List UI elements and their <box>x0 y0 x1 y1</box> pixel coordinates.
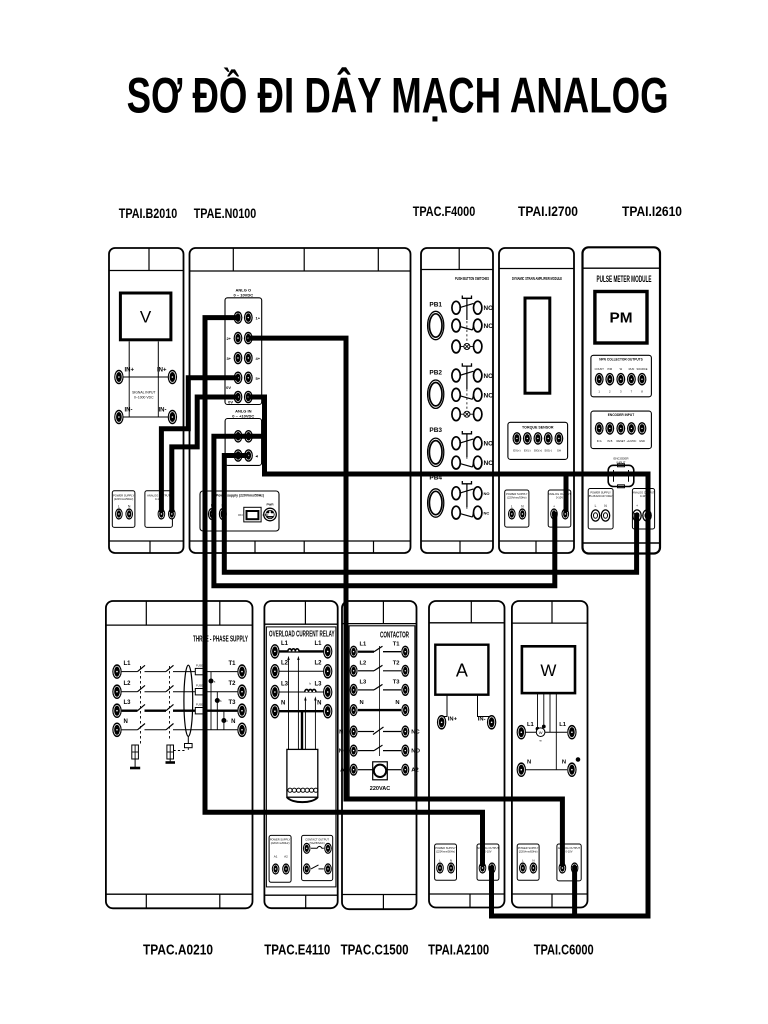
terminal analog + <box>479 862 487 873</box>
terminal N <box>447 862 455 873</box>
tap vertical 1 <box>210 672 212 730</box>
footer divider 1 <box>145 894 147 908</box>
footer band line <box>264 894 337 896</box>
terminal N <box>530 862 538 873</box>
tap dot 2 <box>215 699 219 703</box>
CT lead <box>187 736 189 743</box>
terminal L1 right <box>567 725 576 740</box>
svg-text:DYNAMIC STRAIN AMPLIFIER MODUL: DYNAMIC STRAIN AMPLIFIER MODULE <box>512 276 562 281</box>
svg-text:POWER SUPPLY: POWER SUPPLY <box>270 838 291 842</box>
svg-text:N: N <box>124 719 128 725</box>
svg-text:L: L <box>118 505 120 509</box>
header band line <box>583 267 661 269</box>
power supply box <box>269 835 291 882</box>
wire W5 analog-out row5R bus to I2610 and meters <box>248 397 648 916</box>
CT dashed link <box>172 750 185 752</box>
svg-text:L: L <box>595 504 597 508</box>
terminal N <box>125 508 133 519</box>
strain amplifier display window <box>525 298 550 393</box>
terminal IN- <box>487 715 496 730</box>
svg-text:A: A <box>456 661 468 681</box>
svg-text:RESET: RESET <box>616 439 625 443</box>
ammeter display A <box>435 645 488 695</box>
L1-T1 contact <box>358 651 374 653</box>
L1 heater <box>288 649 299 652</box>
footer band line <box>429 893 505 895</box>
terminal L1 left <box>270 644 279 659</box>
footer divider <box>469 894 471 907</box>
terminal N left <box>270 704 279 719</box>
svg-text:NO: NO <box>484 305 494 312</box>
PB1 contact NC <box>452 319 460 332</box>
contact output box <box>302 835 333 880</box>
svg-text:IN B: IN B <box>607 439 612 443</box>
svg-text:TPAC.C1500: TPAC.C1500 <box>341 943 409 959</box>
terminal L <box>436 862 444 873</box>
svg-text:TPAC.F4000: TPAC.F4000 <box>413 204 476 219</box>
terminal L <box>508 508 516 519</box>
header band line <box>106 624 253 626</box>
header band line <box>421 269 493 271</box>
module TPAI.C6000 frame <box>512 601 588 908</box>
terminal N left <box>517 762 526 777</box>
terminal L3 right <box>323 685 332 700</box>
svg-text:FUSE: FUSE <box>196 664 203 668</box>
svg-text:N: N <box>450 859 452 863</box>
current transformer oval <box>184 665 193 736</box>
terminal IN+ right <box>168 370 177 385</box>
svg-text:(5A/250VAC): (5A/250VAC) <box>310 841 325 845</box>
svg-text:T2: T2 <box>228 681 236 687</box>
svg-text:ANALOG OUTPUT: ANALOG OUTPUT <box>147 493 170 497</box>
wire A to IN- <box>478 695 492 718</box>
power supply box <box>517 844 539 880</box>
terminal T3 <box>237 703 246 718</box>
svg-text:N: N <box>360 700 364 706</box>
power supply box <box>505 490 529 527</box>
watt element symbol <box>536 728 545 737</box>
PB3 contact NC <box>452 456 460 469</box>
terminal L <box>115 508 123 519</box>
svg-text:SIG(-): SIG(-) <box>544 449 552 453</box>
svg-text:A2: A2 <box>411 768 418 774</box>
terminal analog out - <box>168 508 176 519</box>
header band line <box>499 268 574 270</box>
terminal L2 <box>350 665 358 677</box>
terminal N <box>219 508 227 520</box>
svg-text:N: N <box>317 701 321 707</box>
terminal L <box>208 508 216 520</box>
terminal N right <box>237 723 246 738</box>
junction dot <box>542 725 545 728</box>
svg-text:NC: NC <box>484 392 494 399</box>
svg-text:NPN COLLECTOR OUTPUTS: NPN COLLECTOR OUTPUTS <box>599 357 643 361</box>
terminal IN- left <box>114 410 123 425</box>
footer divider 2 <box>219 894 221 908</box>
header divider <box>551 601 553 623</box>
wire W2 analog-out row5 to B2010 output - <box>172 397 238 512</box>
analog output box <box>548 490 571 527</box>
stray dot <box>576 758 580 762</box>
svg-text:TPAI.B2010: TPAI.B2010 <box>119 206 178 221</box>
svg-text:L1: L1 <box>281 641 289 647</box>
terminal enc +12VDC <box>627 422 636 435</box>
terminal NC right <box>401 725 409 737</box>
module TPAI.I2610 frame <box>583 247 661 553</box>
terminal L1 right <box>323 644 332 659</box>
svg-text:+: + <box>636 504 638 508</box>
svg-text:P/M: P/M <box>607 367 612 371</box>
svg-text:CONTACT OUTPUT: CONTACT OUTPUT <box>305 838 329 842</box>
wire W7 analog-in row2 to I2610 analog output + <box>224 456 636 573</box>
sensing lead 2 <box>297 658 299 749</box>
footer divider 3 <box>373 541 375 553</box>
PB2 contact NO <box>452 369 460 382</box>
PB1 linkage <box>466 299 468 343</box>
terminal in row2 R <box>244 449 253 462</box>
svg-text:EX(-): EX(-) <box>524 449 531 453</box>
terminal IN+ left <box>114 370 123 385</box>
svg-text:1+: 1+ <box>256 316 261 321</box>
svg-text:NC: NC <box>484 510 490 515</box>
module TPAC.A0210 frame <box>106 601 253 908</box>
header divider <box>304 601 306 624</box>
svg-text:NO: NO <box>484 491 490 496</box>
footer band line <box>421 540 493 542</box>
wire W lead 1 <box>537 693 539 729</box>
N breaker blade 1 <box>138 724 146 730</box>
N row line thick <box>279 710 323 712</box>
module TPAI.B2010 frame <box>109 248 184 553</box>
terminal row5 R <box>244 391 253 404</box>
terminal L1 <box>350 646 358 658</box>
svg-text:4+: 4+ <box>256 356 261 361</box>
svg-text:POWER SUPPLY: POWER SUPPLY <box>435 846 456 850</box>
svg-text:+: + <box>553 505 555 509</box>
svg-text:N: N <box>527 760 531 766</box>
svg-text:L2: L2 <box>314 661 322 667</box>
footer divider 1 <box>254 541 256 553</box>
terminal T1 <box>237 664 246 679</box>
header band line <box>512 622 588 624</box>
svg-text:ANALOG OUTPUT: ANALOG OUTPUT <box>632 491 655 495</box>
svg-text:IN+: IN+ <box>125 368 135 374</box>
N breaker blade 2 <box>166 724 174 730</box>
svg-text:PM: PM <box>610 310 633 327</box>
wire IN- row <box>119 416 172 418</box>
breaker linkage 1 <box>140 666 142 745</box>
terminal row5 L <box>234 391 243 404</box>
svg-text:A2: A2 <box>284 855 288 859</box>
terminal L <box>591 510 599 521</box>
svg-text:SIGNAL INPUT: SIGNAL INPUT <box>132 391 155 395</box>
inner panel <box>266 627 336 887</box>
surge arrester 1 <box>132 745 139 759</box>
header divider 2 <box>303 248 305 271</box>
svg-text:N: N <box>562 760 566 766</box>
PB1 contact NO <box>452 301 460 314</box>
svg-text:0~1000 VDC: 0~1000 VDC <box>134 396 154 400</box>
terminal analog - <box>643 510 651 521</box>
L1 breaker blade 1 <box>138 665 146 671</box>
svg-text:N: N <box>395 700 399 706</box>
terminal in row1 L <box>234 430 243 443</box>
wire IN+ row <box>119 376 172 378</box>
terminal row1 L <box>234 311 243 324</box>
svg-text:TPAI.A2100: TPAI.A2100 <box>428 943 489 959</box>
svg-text:TPAC.E4110: TPAC.E4110 <box>264 943 330 959</box>
terminal analog - <box>571 862 579 873</box>
svg-text:RUN: RUN <box>629 367 635 371</box>
svg-text:PULSE METER MODULE: PULSE METER MODULE <box>597 274 652 284</box>
terminal T1 <box>401 646 409 658</box>
svg-text:◄: ◄ <box>255 454 259 459</box>
terminal A2 <box>282 863 290 874</box>
analog output box <box>477 844 499 880</box>
wire W8 branch to I2700 analog output - <box>564 474 569 512</box>
NC contact <box>358 731 374 733</box>
N row line <box>526 769 567 771</box>
footer divider <box>382 895 384 910</box>
terminal row2 L <box>234 332 243 345</box>
svg-text:FUSE: FUSE <box>196 684 203 688</box>
svg-text:SOURCE: SOURCE <box>636 367 647 371</box>
svg-text:TPAI.C6000: TPAI.C6000 <box>534 943 594 959</box>
analog out terminal block <box>225 298 262 405</box>
terminal L3 <box>112 703 121 718</box>
svg-text:(220Vrms/50Hz): (220Vrms/50Hz) <box>436 850 455 854</box>
terminal npn 8 <box>638 373 647 386</box>
wattmeter display W <box>522 646 575 693</box>
svg-text:L1: L1 <box>360 641 368 647</box>
module TPAC.F4000 frame <box>421 248 493 553</box>
footer divider 2 <box>303 541 305 553</box>
terminal T3 <box>401 684 409 696</box>
svg-text:CONTACTOR: CONTACTOR <box>380 631 409 640</box>
svg-text:N: N <box>532 859 534 863</box>
coil 220VAC <box>373 762 388 780</box>
svg-text:+12VDC: +12VDC <box>626 439 636 443</box>
terminal NO right <box>401 745 409 757</box>
terminal NO left <box>350 745 358 757</box>
NO contact <box>358 750 374 752</box>
L2 row line <box>279 670 323 672</box>
relay bottom arc <box>287 797 318 802</box>
wire A to IN+ <box>442 695 447 718</box>
svg-text:T1: T1 <box>393 641 401 647</box>
footer band line <box>499 540 574 542</box>
PB3 contact NO <box>452 437 460 450</box>
PB4 contact NC <box>452 506 460 519</box>
terminal row4 L <box>234 372 243 385</box>
svg-text:POWER SUPPLY: POWER SUPPLY <box>518 846 539 850</box>
svg-text:L1: L1 <box>124 661 132 667</box>
svg-text:W: W <box>540 661 556 680</box>
wire W lead 4 <box>555 693 557 770</box>
svg-text:IN+: IN+ <box>448 716 458 722</box>
header band line <box>429 622 505 624</box>
svg-text:COUNT: COUNT <box>595 367 605 371</box>
analog in terminal block <box>225 419 262 466</box>
header divider 2 <box>219 601 221 625</box>
svg-text:POWER SUPPLY: POWER SUPPLY <box>590 491 611 495</box>
terminal L1 left <box>517 725 526 740</box>
voltmeter display V <box>120 293 170 340</box>
svg-text:T2: T2 <box>393 661 400 667</box>
footer divider <box>459 541 461 553</box>
svg-text:T3: T3 <box>393 680 401 686</box>
svg-text:TPAI.I2610: TPAI.I2610 <box>622 204 682 219</box>
ground 1 <box>130 767 140 770</box>
terminal N right <box>567 762 576 777</box>
svg-text:PWR: PWR <box>267 503 275 507</box>
svg-text:V: V <box>140 308 152 327</box>
N drop thick <box>301 711 303 749</box>
terminal N right <box>401 704 409 716</box>
L1 row line <box>526 731 567 733</box>
header band line <box>342 623 417 625</box>
svg-text:(220Vrms/50Hz): (220Vrms/50Hz) <box>271 841 290 845</box>
svg-text:0-10V: 0-10V <box>556 496 563 500</box>
PB4 linkage <box>466 485 468 511</box>
inner panel <box>349 626 415 798</box>
header divider <box>470 601 472 623</box>
svg-text:L3: L3 <box>360 680 368 686</box>
sensing lead 1 <box>288 658 290 749</box>
signal input box <box>129 377 158 417</box>
contact NO pair <box>303 863 311 874</box>
footer band line <box>583 542 661 544</box>
terminal IN- right <box>168 410 177 425</box>
svg-text:3+: 3+ <box>226 356 231 361</box>
svg-text:TORQUE SENSOR: TORQUE SENSOR <box>522 426 554 430</box>
svg-text:(220Vrms/50Hz): (220Vrms/50Hz) <box>519 850 538 854</box>
analog output box <box>632 489 654 530</box>
svg-text:NC: NC <box>484 460 494 467</box>
module TPAC.E4110 frame <box>264 601 337 908</box>
torque sensor block <box>508 422 568 459</box>
power supply box <box>435 844 457 880</box>
svg-text:0V: 0V <box>226 385 231 390</box>
terminal N right <box>323 704 332 719</box>
footer divider <box>305 895 307 908</box>
L2 breaker blade 1 <box>138 685 146 691</box>
wire W lead 2 <box>543 693 545 727</box>
footer band line <box>106 893 253 895</box>
terminal EX(+) <box>513 432 522 445</box>
terminal row3 L <box>234 352 243 365</box>
svg-text:IN+: IN+ <box>157 368 167 374</box>
npn collector outputs block <box>591 355 652 397</box>
ground 2 <box>166 761 176 764</box>
svg-text:L2: L2 <box>360 661 367 667</box>
footer divider <box>149 541 151 553</box>
wire W4 analog-out row2 to C6000 analog output <box>248 338 562 866</box>
pulse meter display PM <box>595 292 647 344</box>
terminal L2 left <box>270 664 279 679</box>
svg-text:TPAC.A0210: TPAC.A0210 <box>143 943 213 959</box>
svg-text:THREE - PHASE SUPPLY: THREE - PHASE SUPPLY <box>193 634 248 644</box>
svg-text:0V: 0V <box>228 400 233 405</box>
terminal L2 right <box>323 664 332 679</box>
svg-text:(220Vrms/50Hz): (220Vrms/50Hz) <box>114 497 134 501</box>
terminal analog - <box>488 862 496 873</box>
svg-text:NO: NO <box>411 749 420 755</box>
terminal L1 <box>112 664 121 679</box>
terminal row3 R <box>244 352 253 365</box>
terminal npn 2 <box>605 373 614 386</box>
wire V box to IN+ row right <box>157 341 159 377</box>
fuse L1 <box>195 668 203 674</box>
terminal in row1 R <box>244 430 253 443</box>
header divider <box>382 601 384 624</box>
svg-text:SIG(+): SIG(+) <box>534 449 542 453</box>
header divider 1 <box>232 248 234 271</box>
wire W9 branch C6000 analog output - to bus <box>572 866 577 916</box>
svg-text:0 ~ 10VDC: 0 ~ 10VDC <box>233 293 253 298</box>
svg-text:0-10V: 0-10V <box>485 850 492 854</box>
svg-text:IN-: IN- <box>125 408 133 414</box>
footer divider <box>535 541 537 553</box>
footer divider <box>551 894 553 907</box>
terminal NC left <box>350 725 358 737</box>
header divider 1 <box>145 601 147 625</box>
tap vertical 2 <box>216 692 218 730</box>
terminal L3 left <box>270 685 279 700</box>
svg-text:FUSE: FUSE <box>196 703 203 707</box>
neutral N row line <box>122 729 138 731</box>
L3 row line <box>279 691 323 693</box>
svg-text:L1: L1 <box>527 722 535 728</box>
terminal analog + <box>633 510 641 521</box>
tap dot 1 <box>209 679 213 683</box>
svg-text:T3: T3 <box>228 700 236 706</box>
terminal L2 <box>112 684 121 699</box>
footer band line <box>342 894 417 896</box>
svg-text:EX(+): EX(+) <box>513 449 520 453</box>
svg-text:L1: L1 <box>559 722 567 728</box>
fuse L2 <box>195 689 203 695</box>
phase L3 row line <box>122 710 138 712</box>
svg-text:NO: NO <box>484 373 494 380</box>
svg-text:POWER SUPPLY: POWER SUPPLY <box>506 492 528 496</box>
terminal A2 <box>401 764 409 776</box>
PB1 lamp row <box>452 340 460 353</box>
terminal row1 R <box>244 311 253 324</box>
footer band line <box>190 540 411 542</box>
terminal in row2 L <box>234 449 243 462</box>
terminal row4 R <box>244 372 253 385</box>
svg-text:OVERLOAD CURRENT RELAY: OVERLOAD CURRENT RELAY <box>269 629 335 639</box>
terminal enc INB <box>605 422 614 435</box>
header divider <box>458 248 460 270</box>
N-N line thick <box>358 709 401 711</box>
terminal enc GND <box>638 422 647 435</box>
breaker linkage 2 <box>169 666 171 740</box>
svg-text:L3: L3 <box>124 700 132 706</box>
L3 breaker blade 2 <box>166 704 174 710</box>
svg-text:N: N <box>281 701 285 707</box>
wire V box to IN+ row <box>128 341 130 377</box>
terminal enc INA <box>595 422 604 435</box>
L3 breaker blade 1 <box>138 704 146 710</box>
svg-text:T1: T1 <box>228 661 236 667</box>
terminal N left <box>350 704 358 716</box>
sensing lead 4 <box>314 699 316 750</box>
terminal analog - <box>562 508 570 519</box>
svg-text:NC: NC <box>411 730 420 736</box>
terminal analog out + <box>158 508 166 519</box>
